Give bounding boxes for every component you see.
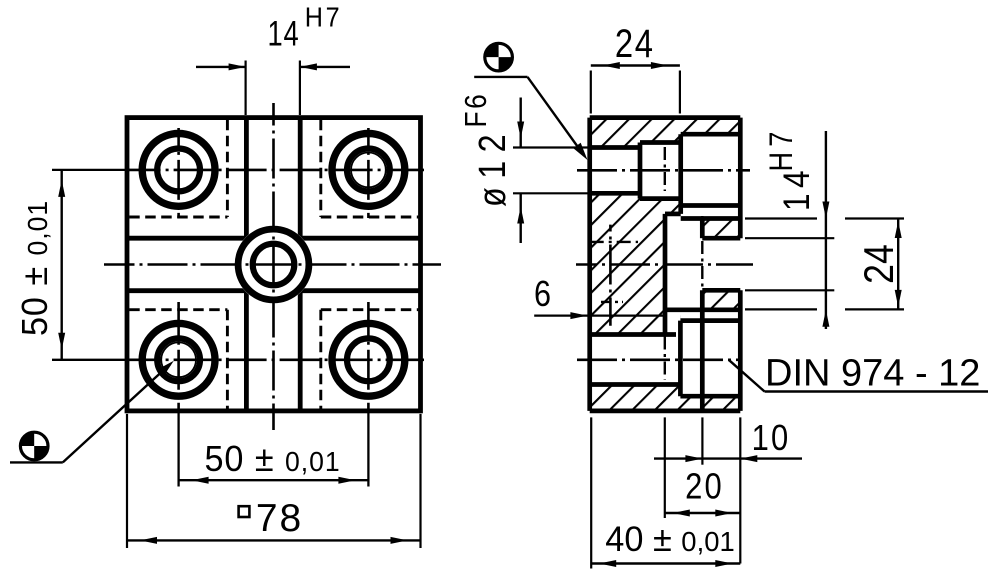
svg-text:40 ± 0,01: 40 ± 0,01 bbox=[605, 521, 734, 559]
svg-text:24: 24 bbox=[856, 244, 902, 284]
svg-text:6: 6 bbox=[534, 275, 551, 315]
svg-text:24: 24 bbox=[615, 21, 655, 66]
svg-text:20: 20 bbox=[685, 467, 724, 507]
svg-text:78: 78 bbox=[256, 497, 303, 540]
svg-text:50 ± 0,01: 50 ± 0,01 bbox=[15, 200, 55, 336]
svg-text:14: 14 bbox=[268, 14, 300, 53]
svg-text:H7: H7 bbox=[764, 127, 800, 172]
svg-text:DIN 974 - 12: DIN 974 - 12 bbox=[765, 353, 980, 395]
svg-text:H7: H7 bbox=[305, 1, 343, 33]
svg-text:10: 10 bbox=[752, 419, 791, 459]
svg-text:50 ± 0,01: 50 ± 0,01 bbox=[204, 439, 340, 479]
